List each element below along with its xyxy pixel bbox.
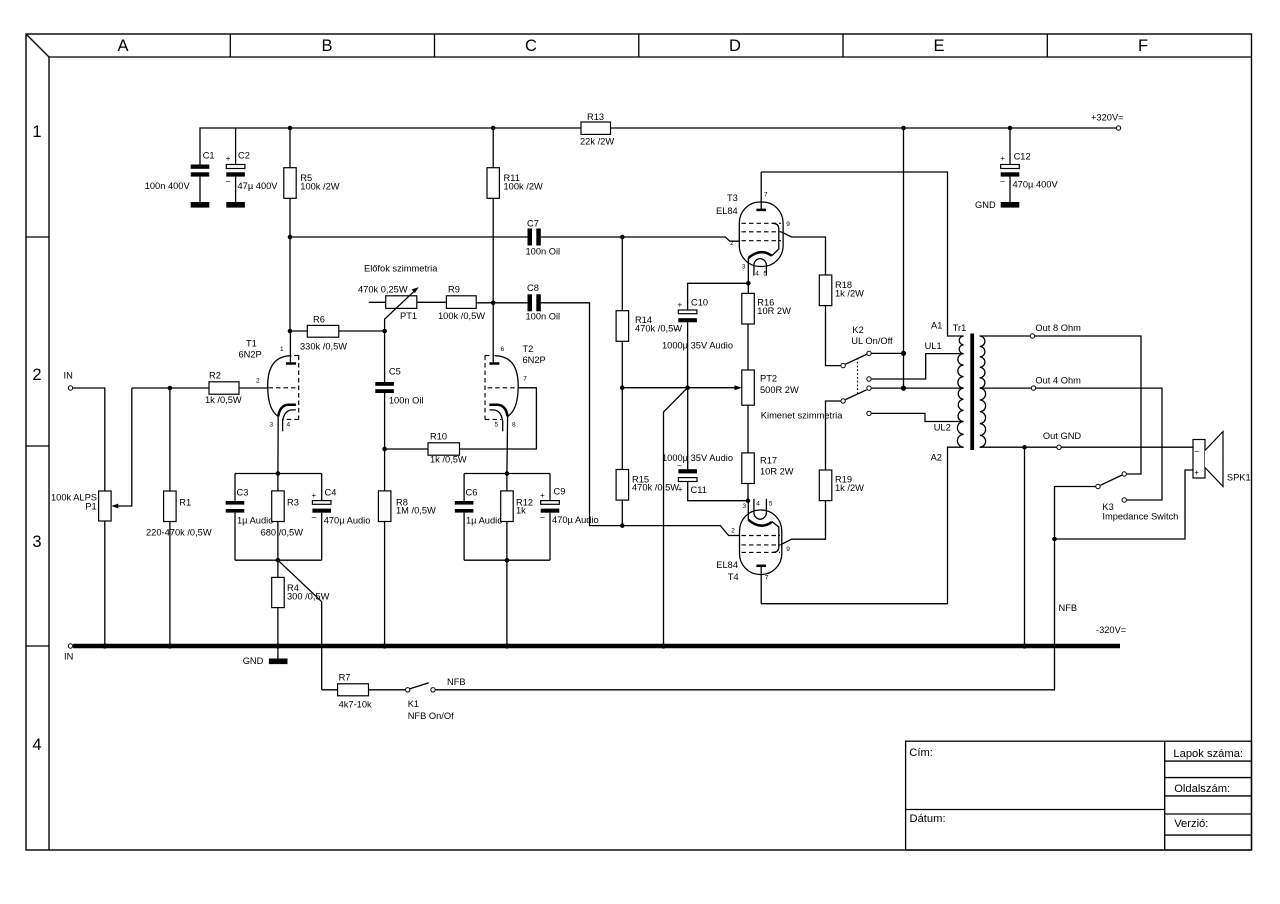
grid g3 T4 — [742, 551, 781, 553]
svg-text:1k: 1k — [516, 506, 526, 516]
svg-text:470µ Audio: 470µ Audio — [324, 516, 371, 526]
wire C6 bottom lead — [463, 513, 465, 561]
column separator E|F — [1046, 34, 1048, 57]
svg-text:+320V=: +320V= — [1091, 113, 1124, 123]
title block outline — [906, 741, 1252, 850]
capacitor C7 — [528, 229, 541, 246]
wire R14 bottom lead — [621, 341, 623, 387]
svg-text:1000µ 35V Audio: 1000µ 35V Audio — [662, 453, 733, 463]
svg-text:C4: C4 — [325, 488, 337, 498]
svg-text:1M /0,5W: 1M /0,5W — [396, 506, 436, 516]
capacitor C12 — [1000, 154, 1019, 202]
wire T3 cathode to C10 — [688, 283, 749, 310]
column separator A|B — [229, 34, 231, 57]
potentiometer PT1 — [386, 296, 417, 309]
svg-text:PT2: PT2 — [760, 373, 777, 383]
svg-text:D: D — [729, 37, 741, 55]
svg-text:+: + — [678, 300, 683, 309]
node input/R1 — [168, 386, 173, 391]
svg-text:9: 9 — [786, 546, 790, 553]
node B+ riser lower — [901, 386, 906, 391]
wire R12 top lead — [506, 474, 508, 491]
node rail/B+riser — [901, 126, 906, 131]
svg-text:2: 2 — [730, 240, 734, 247]
switch K2 throw B+ lower — [867, 386, 871, 390]
svg-text:IN: IN — [64, 652, 73, 662]
wire R4 top lead — [277, 560, 279, 577]
svg-text:+: + — [678, 485, 683, 494]
svg-text:-320V=: -320V= — [1096, 625, 1126, 635]
svg-text:PT1: PT1 — [400, 311, 417, 321]
switch K3 throw1 — [1122, 472, 1126, 476]
node rail/C12 — [1008, 126, 1013, 131]
svg-text:300 /0,5W: 300 /0,5W — [287, 591, 330, 601]
svg-text:4: 4 — [756, 501, 760, 508]
resistor R1 — [164, 491, 177, 522]
svg-text:Dátum:: Dátum: — [910, 813, 946, 825]
wire K2 pole2 to R19 — [826, 401, 841, 470]
capacitor C4 — [312, 491, 332, 522]
svg-text:EL84: EL84 — [716, 560, 738, 570]
wire T3 g2 to R18 — [781, 232, 826, 275]
wiper arrow PT1 — [385, 287, 419, 331]
node network bottom — [276, 558, 281, 563]
svg-text:K3: K3 — [1102, 502, 1113, 512]
switch K2 throw UL1 — [867, 377, 871, 381]
svg-text:C1: C1 — [203, 151, 215, 161]
wire OutGND — [980, 446, 1057, 448]
svg-text:+: + — [1000, 154, 1005, 163]
wiper arrow PT2 — [735, 385, 742, 390]
svg-text:Tr1: Tr1 — [953, 323, 967, 333]
wire OutGND to speaker — [1062, 446, 1193, 448]
wire T4 anode to transformer A2 — [761, 447, 963, 604]
svg-text:100n Oil: 100n Oil — [526, 311, 561, 321]
svg-text:R1: R1 — [179, 497, 191, 507]
wire NFB takeoff diagonal — [278, 560, 322, 690]
resistor R12 — [501, 491, 514, 522]
wire UL1 tap — [872, 354, 964, 379]
svg-text:–: – — [1195, 447, 1200, 456]
wire +320V top rail right part — [611, 127, 1119, 129]
capacitor C5 — [375, 331, 394, 449]
node T4 cathode junction — [746, 498, 751, 503]
ground C12 — [1001, 202, 1020, 208]
wire rail388 — [622, 387, 738, 389]
svg-text:C9: C9 — [554, 487, 566, 497]
row separator 3|4 — [26, 645, 49, 647]
svg-text:T3: T3 — [727, 193, 738, 203]
wire C9 bottom lead — [549, 513, 551, 561]
switch K2 arm1 — [845, 354, 866, 364]
resistor R2 — [209, 382, 239, 394]
wire Out8 to K3 — [1035, 336, 1141, 474]
wire R5 top lead — [289, 128, 291, 168]
wire C3 bottom lead — [234, 513, 236, 561]
svg-text:R7: R7 — [339, 672, 351, 682]
ground C2 — [226, 202, 245, 208]
switch K2 pole2 — [841, 399, 845, 403]
grid g3 T3 — [742, 222, 782, 224]
svg-text:47µ 400V: 47µ 400V — [238, 181, 279, 191]
capacitor C2 — [226, 154, 245, 202]
wire R6 left lead — [290, 330, 307, 332]
svg-text:A: A — [117, 37, 128, 55]
wire T3 anode to transformer A1 — [761, 172, 963, 336]
node bus R4 — [275, 643, 280, 648]
svg-text:4: 4 — [32, 736, 41, 754]
potentiometer P1 — [99, 491, 112, 521]
svg-text:1k /2W: 1k /2W — [835, 483, 864, 493]
resistor R18 — [819, 275, 832, 306]
wire C2 top lead — [235, 128, 237, 165]
svg-text:8: 8 — [512, 422, 516, 429]
wire P1 bottom to bus — [104, 521, 106, 646]
terminal IN bottom — [68, 644, 72, 648]
resistor R5 — [284, 168, 296, 199]
svg-text:500R 2W: 500R 2W — [760, 385, 799, 395]
svg-text:10R 2W: 10R 2W — [757, 306, 791, 316]
wire PT2 to R17 — [747, 405, 749, 453]
pentode T4 envelope — [740, 510, 782, 575]
svg-text:4k7-10k: 4k7-10k — [339, 699, 372, 709]
resistor R17 — [742, 453, 755, 484]
transformer Tr1 primary — [957, 336, 963, 447]
column separator D|E — [842, 34, 844, 57]
svg-text:UL2: UL2 — [934, 423, 951, 433]
ground bus — [73, 644, 1120, 649]
capacitor C9 — [540, 491, 559, 522]
svg-text:R9: R9 — [448, 284, 460, 294]
svg-text:NFB: NFB — [1059, 603, 1078, 613]
heater T2 — [489, 410, 502, 431]
svg-text:100k /2W: 100k /2W — [300, 181, 339, 191]
wire R9 to C8 — [476, 302, 527, 304]
svg-text:3: 3 — [743, 503, 747, 510]
column separator C|D — [638, 34, 640, 57]
wire network2 top rail — [464, 473, 550, 475]
wire R18 to K2 pole1 — [826, 306, 841, 366]
internal g3-cathode link T4 — [772, 522, 779, 553]
svg-text:UL On/Off: UL On/Off — [851, 336, 893, 346]
wire R7 to K1 — [369, 689, 406, 691]
node rail/R5 — [288, 126, 293, 131]
wire C10 bottom lead — [687, 322, 689, 387]
wire R6 right lead — [339, 330, 385, 332]
svg-text:3: 3 — [270, 422, 274, 429]
cathode T2 — [489, 405, 507, 417]
svg-text:R10: R10 — [430, 431, 447, 441]
grid g2 T4 — [742, 544, 781, 546]
wire T2 cathode to network — [506, 416, 509, 473]
triode T2 envelope — [485, 356, 518, 420]
svg-text:9: 9 — [786, 221, 790, 228]
terminal OutGND — [1057, 445, 1061, 449]
anode T3 pin7 — [756, 172, 768, 210]
svg-text:Előfok szimmetria: Előfok szimmetria — [364, 264, 438, 274]
svg-text:2: 2 — [32, 366, 41, 384]
wire C11 bottom to T4 cathode — [688, 482, 748, 501]
node rail388/C10 — [685, 385, 690, 390]
svg-text:4: 4 — [755, 270, 759, 277]
triode T1 envelope — [268, 356, 299, 420]
svg-text:GND: GND — [243, 656, 264, 666]
wire +320V top rail left part — [200, 128, 581, 165]
wire K3 pole to speaker plus — [1055, 470, 1194, 539]
svg-text:C12: C12 — [1014, 152, 1031, 162]
wire B+ riser — [903, 128, 905, 388]
svg-text:5: 5 — [763, 270, 767, 277]
border frame corner diagonal — [26, 34, 49, 57]
node cathode network top — [276, 471, 281, 476]
resistor R10 — [428, 443, 460, 455]
svg-text:1k /0,5W: 1k /0,5W — [430, 454, 467, 464]
svg-text:100n Oil: 100n Oil — [526, 246, 561, 256]
svg-text:K1: K1 — [408, 699, 419, 709]
cathode T4 — [748, 520, 771, 526]
wire R11 bottom lead to T2 plate — [492, 198, 494, 361]
title block right column row lines — [1165, 761, 1252, 835]
wire R11 top lead — [492, 128, 494, 168]
wire R5node to R6 — [289, 237, 291, 331]
resistor R6 — [307, 325, 339, 337]
svg-text:C5: C5 — [389, 366, 401, 376]
svg-text:K2: K2 — [852, 325, 863, 335]
heater T4 — [754, 499, 767, 519]
internal g3-cathode link T3 — [772, 223, 779, 256]
svg-text:B: B — [321, 37, 332, 55]
resistor R8 — [378, 491, 391, 522]
wire OutGND riser to bus — [1024, 447, 1026, 646]
resistor R7 — [338, 684, 369, 696]
switch K1 arm — [410, 683, 429, 689]
resistor R9 — [446, 296, 476, 309]
svg-text:T4: T4 — [728, 572, 739, 582]
wire C7 to T3 grid — [541, 237, 740, 241]
wire R8 top lead — [384, 449, 386, 491]
svg-text:470µ Audio: 470µ Audio — [552, 515, 599, 525]
svg-text:IN: IN — [64, 371, 73, 381]
capacitor C8 — [528, 294, 541, 311]
switch K2 throw B+ upper — [867, 351, 871, 355]
svg-text:6: 6 — [501, 346, 505, 353]
switch K1 pole — [406, 688, 410, 692]
svg-text:10R 2W: 10R 2W — [760, 466, 794, 476]
svg-text:–: – — [312, 513, 317, 522]
wire C4 top lead — [321, 474, 323, 501]
cathode T4 lead — [747, 501, 749, 520]
svg-text:1: 1 — [32, 123, 41, 141]
transformer Tr1 secondary — [980, 336, 986, 447]
node cathode network2 top — [505, 471, 510, 476]
switch K1 throw — [431, 688, 435, 692]
svg-text:UL1: UL1 — [925, 341, 942, 351]
wire C9 top lead — [549, 474, 551, 501]
wire network2 bottom rail — [464, 559, 550, 561]
node bus R8 — [382, 643, 387, 648]
row separator 1|2 — [26, 236, 49, 238]
svg-text:R6: R6 — [313, 315, 325, 325]
wire R1 top lead — [169, 388, 171, 491]
wire R16 to PT2 — [747, 324, 749, 370]
node plate T1 / R6 — [288, 329, 293, 334]
wire T1 cathode to network — [277, 416, 279, 473]
wire R3 bottom lead — [277, 522, 279, 561]
svg-text:1µ Audio: 1µ Audio — [466, 516, 502, 526]
heater T1 — [283, 410, 296, 431]
svg-text:2: 2 — [731, 528, 735, 535]
switch K3 pole — [1096, 484, 1100, 488]
svg-text:7: 7 — [523, 375, 527, 382]
svg-text:C10: C10 — [691, 297, 708, 307]
svg-text:1µ Audio: 1µ Audio — [237, 516, 273, 526]
svg-text:4: 4 — [287, 422, 291, 429]
svg-text:1k /2W: 1k /2W — [835, 289, 864, 299]
terminal IN top — [68, 386, 72, 390]
svg-text:R13: R13 — [587, 112, 604, 122]
cathode T1 — [278, 405, 296, 417]
node R14/rail388 — [620, 385, 625, 390]
wire R14 top lead — [621, 237, 623, 311]
svg-text:5: 5 — [495, 422, 499, 429]
wire NFB riser — [436, 539, 1055, 690]
wire IN to P1 top — [73, 388, 105, 491]
wire R19 to T4 g2 — [780, 501, 825, 545]
wire network2 to bus — [506, 560, 508, 646]
grid g2 T3 — [742, 231, 782, 233]
svg-text:7: 7 — [765, 574, 769, 581]
resistor R13 — [581, 122, 611, 134]
node NFB/speaker — [1052, 537, 1057, 542]
svg-text:SPK1: SPK1 — [1227, 472, 1251, 482]
wire input row to R2 — [132, 387, 209, 389]
svg-text:+: + — [226, 154, 231, 163]
resistor R15 — [616, 470, 629, 501]
svg-text:F: F — [1138, 37, 1148, 55]
svg-text:Kimenet szimmetria: Kimenet szimmetria — [761, 410, 843, 420]
anode T1 pin1 — [280, 331, 296, 364]
svg-text:3: 3 — [742, 264, 746, 271]
svg-text:NFB: NFB — [447, 677, 466, 687]
svg-text:A1: A1 — [931, 321, 942, 331]
node bus riser663 — [661, 643, 666, 648]
svg-text:100n 400V: 100n 400V — [145, 181, 191, 191]
wire center tap — [872, 387, 964, 389]
node C5/R10/R8 — [382, 447, 387, 452]
wire R2 to T1 grid — [239, 387, 268, 389]
node bus P1 — [102, 643, 107, 648]
svg-text:+: + — [312, 491, 317, 500]
border frame left band line — [48, 57, 50, 850]
svg-text:C7: C7 — [527, 218, 539, 228]
wire R16 top lead — [747, 283, 749, 293]
title block Cim/Datum divider — [906, 809, 1165, 811]
wire R8 bottom to bus — [384, 522, 386, 647]
svg-text:P1: P1 — [85, 501, 96, 511]
svg-text:–: – — [540, 513, 545, 522]
wire UL2 tap — [872, 413, 964, 421]
svg-text:Cím:: Cím: — [909, 747, 933, 759]
anode T2 pin6 — [489, 346, 504, 363]
wire R15 top lead — [621, 388, 623, 470]
switch K2 gang link — [857, 358, 859, 396]
capacitor C1 — [191, 165, 210, 203]
svg-text:R2: R2 — [209, 370, 221, 380]
svg-text:R3: R3 — [287, 497, 299, 507]
svg-text:C11: C11 — [691, 485, 707, 495]
row separator 2|3 — [26, 445, 49, 447]
wire PT1 left stub — [369, 301, 386, 303]
svg-text:C: C — [525, 37, 537, 55]
node rail/R11 — [491, 126, 496, 131]
svg-text:Verzió:: Verzió: — [1174, 818, 1208, 830]
wire C6 top lead — [463, 474, 465, 502]
grid T1 dashes — [269, 387, 299, 389]
terminal Out8 — [1030, 334, 1034, 338]
svg-text:C2: C2 — [238, 151, 250, 161]
potentiometer PT2 — [742, 370, 755, 405]
resistor R16 — [742, 293, 755, 324]
wire R12 bottom lead — [506, 522, 508, 561]
svg-text:–: – — [226, 176, 231, 185]
resistor R14 — [616, 311, 629, 342]
capacitor C10 — [674, 300, 697, 333]
capacitor C3 — [226, 501, 245, 513]
switch K3 arm — [1100, 475, 1122, 485]
wiper arrow P1 — [111, 388, 132, 508]
anode T4 pin7 — [756, 566, 768, 604]
svg-text:220-470k /0,5W: 220-470k /0,5W — [146, 527, 212, 537]
svg-text:R17: R17 — [760, 455, 777, 465]
wire R4 bottom to bus — [277, 608, 279, 646]
svg-text:22k /2W: 22k /2W — [580, 137, 614, 147]
wire R15 bottom lead — [621, 500, 623, 525]
node OutGND riser — [1022, 445, 1027, 450]
svg-text:470µ 400V: 470µ 400V — [1013, 179, 1059, 189]
wire C4 bottom lead — [321, 513, 323, 561]
node bus R1 — [167, 643, 172, 648]
svg-text:C3: C3 — [237, 488, 249, 498]
svg-text:C6: C6 — [466, 488, 478, 498]
svg-text:–: – — [674, 325, 679, 334]
node R15/C8 wire — [620, 523, 625, 528]
capacitor C6 — [455, 501, 474, 513]
wire R3 top lead — [277, 474, 279, 491]
wire C8 to T4 grid — [541, 303, 740, 536]
wire C3 top lead — [234, 474, 236, 502]
svg-text:T1: T1 — [246, 339, 257, 349]
svg-text:1000µ 35V Audio: 1000µ 35V Audio — [662, 340, 733, 350]
grid g1 T3 — [742, 240, 782, 242]
node rail2/R5 — [288, 235, 293, 240]
svg-text:Impedance Switch: Impedance Switch — [1102, 512, 1178, 522]
grid g1 T4 — [742, 535, 781, 537]
wire Out8 — [980, 335, 1030, 337]
svg-text:470k 0,25W: 470k 0,25W — [358, 284, 408, 294]
node T2 plate / R9 / C8 — [491, 301, 496, 306]
title block divider vertical — [1164, 741, 1166, 850]
svg-text:100k /0,5W: 100k /0,5W — [438, 311, 485, 321]
wire network bottom rail — [235, 559, 322, 561]
node network2 bottom — [505, 558, 510, 563]
svg-text:680 /0,5W: 680 /0,5W — [261, 527, 304, 537]
wire C12 top lead — [1009, 128, 1011, 165]
terminal Out4 — [1031, 386, 1035, 390]
svg-text:Out GND: Out GND — [1043, 431, 1082, 441]
switch K2 pole1 — [841, 363, 845, 367]
wire Out4 to K3 — [1036, 388, 1162, 500]
svg-text:T2: T2 — [523, 344, 534, 354]
